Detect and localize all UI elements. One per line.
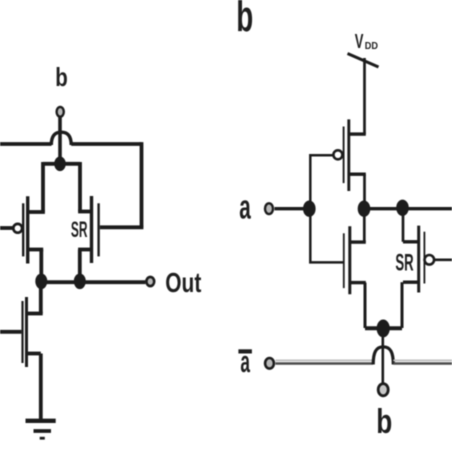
wire: M5 gate lead bbox=[310, 209, 343, 263]
ground bbox=[26, 421, 56, 438]
svg-text:V: V bbox=[355, 31, 364, 53]
wire: M3 drain drop bbox=[39, 282, 43, 314]
svg-text:a: a bbox=[239, 189, 251, 227]
wire: feedback right vertical bbox=[140, 142, 144, 227]
node: M1 source / output bbox=[35, 274, 47, 290]
wire: M2 drain drop bbox=[78, 162, 82, 212]
wire: a-bar lead right bbox=[393, 362, 452, 365]
input terminal a-bar bbox=[265, 358, 274, 369]
wire: M1 drain drop bbox=[41, 162, 45, 212]
wire: M1 source drop bbox=[39, 250, 43, 283]
node: M6 drain junction bbox=[396, 200, 409, 216]
wire: source bracket bbox=[365, 326, 402, 330]
svg-text:b: b bbox=[55, 62, 67, 92]
wire: M5 drain drop bbox=[363, 209, 366, 242]
wire: M4 gate lead bbox=[310, 155, 333, 208]
node: pass-gate source junction bbox=[377, 320, 390, 338]
wire: b gate drop bbox=[381, 328, 384, 384]
wire: b input vertical bbox=[58, 118, 62, 164]
transistor M3 (NMOS, bottom left) bbox=[0, 297, 43, 367]
svg-text:b: b bbox=[236, 0, 253, 41]
wire: feedback left segment bbox=[0, 142, 52, 146]
wire: junction row bbox=[43, 162, 80, 166]
node: b/gates junction bbox=[54, 157, 66, 172]
wire: M6 drain drop bbox=[402, 208, 405, 242]
wire: a-bar lead left bbox=[276, 362, 373, 365]
node: a / gates junction bbox=[303, 201, 316, 217]
wire: M6 gate lead bbox=[435, 258, 452, 261]
input terminal b (left circuit) bbox=[57, 107, 64, 117]
svg-text:b: b bbox=[376, 403, 392, 441]
wire: M3 source to ground bbox=[39, 354, 43, 420]
output terminal Out bbox=[146, 277, 154, 286]
transistor M5 (NMOS, right circuit bottom-left) bbox=[344, 226, 366, 294]
wire hop: feedback over b input bbox=[51, 132, 71, 145]
svg-text:SR: SR bbox=[395, 250, 413, 277]
transistor M1 (PMOS, left with gate bubble) bbox=[0, 196, 45, 263]
label a-bar bbox=[238, 344, 252, 379]
wire: M4 source drop bbox=[363, 174, 366, 209]
wire: M6 source drop bbox=[401, 282, 404, 328]
wire: M2 source drop bbox=[78, 250, 82, 283]
wire: M2 SR gate feedback lead bbox=[100, 225, 144, 229]
node: M2 source / output bbox=[74, 274, 86, 290]
transistor M4 (PMOS, right circuit top) bbox=[333, 119, 365, 191]
svg-text:DD: DD bbox=[365, 40, 379, 52]
input terminal a bbox=[265, 203, 273, 214]
transistor M2 (SR pass transistor, left circuit) bbox=[78, 196, 99, 263]
wire: drain output row bbox=[363, 207, 452, 210]
wire: feedback top segment bbox=[71, 142, 141, 146]
wire: output row bbox=[41, 280, 146, 284]
wire: a lead bbox=[275, 207, 306, 210]
svg-text:Out: Out bbox=[165, 267, 201, 298]
wire hop: a-bar over b drop bbox=[373, 347, 393, 365]
power VDD slash bbox=[348, 54, 379, 68]
transistor M6 (SR pass transistor, right circuit) bbox=[403, 226, 434, 293]
svg-text:SR: SR bbox=[71, 217, 88, 242]
wire: M5 source drop bbox=[364, 283, 367, 328]
input terminal b (bottom) bbox=[378, 384, 388, 396]
wire: VDD drop bbox=[363, 58, 366, 134]
wire: a-bar lead left (light top edge) bbox=[276, 359, 373, 361]
wire: a-bar lead right (light top edge) bbox=[393, 359, 452, 361]
node: M4/M5 drain junction bbox=[358, 201, 371, 217]
svg-text:a: a bbox=[240, 344, 250, 379]
